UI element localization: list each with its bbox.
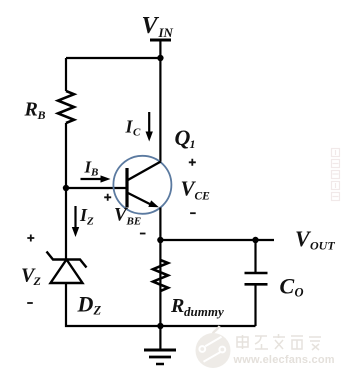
arrow IZ downward	[72, 206, 79, 237]
watermark chinese text	[237, 334, 321, 350]
svg-text:C: C	[280, 274, 295, 299]
svg-text:C: C	[133, 127, 141, 139]
node base junction dot	[63, 185, 69, 191]
label RB	[24, 99, 46, 123]
wire VIN stub down to junction	[159, 40, 161, 58]
label IB	[84, 158, 99, 179]
transistor Q1 emitter diagonal with arrow	[127, 193, 159, 208]
label DZ	[77, 292, 102, 318]
wire emitter vertical	[159, 208, 161, 327]
svg-text:O: O	[295, 286, 304, 300]
watermark logo circle	[196, 326, 231, 368]
capacitor CO top lead	[254, 240, 256, 273]
label minus VCE	[190, 212, 196, 214]
svg-text:Q: Q	[175, 125, 191, 150]
svg-text:BE: BE	[126, 216, 142, 228]
label plus VZ	[27, 235, 34, 242]
label minus VBE	[140, 233, 146, 235]
svg-text:Z: Z	[93, 304, 102, 318]
svg-text:IN: IN	[158, 25, 174, 40]
label CO	[280, 274, 304, 300]
arrow IC downward	[146, 112, 153, 142]
svg-text:V: V	[142, 13, 160, 39]
arrow IB rightward	[81, 175, 111, 182]
svg-text:B: B	[37, 108, 46, 122]
svg-text:CE: CE	[195, 191, 211, 203]
label Rdummy	[170, 295, 224, 319]
label IC	[125, 117, 142, 139]
transistor Q1 collector diagonal	[127, 162, 161, 181]
ground	[144, 326, 176, 364]
wire top horizontal	[66, 57, 160, 59]
transistor Q1 circle	[113, 156, 171, 214]
svg-text:R: R	[24, 99, 38, 121]
node VIN terminal bar	[150, 39, 171, 42]
svg-text:Z: Z	[86, 216, 94, 228]
transistor Q1 base bar	[125, 168, 128, 208]
capacitor CO plates	[245, 273, 268, 284]
label IZ	[79, 205, 94, 228]
label VZ	[21, 265, 42, 289]
wire left top segment	[65, 58, 67, 91]
label VOUT	[295, 226, 335, 253]
wire left middle segment	[65, 123, 67, 260]
svg-text:Z: Z	[33, 274, 42, 288]
label Q1	[175, 125, 196, 151]
node bottom junction dot	[157, 323, 163, 329]
label minus VZ	[27, 302, 33, 304]
label VBE	[114, 205, 141, 228]
svg-text:dummy: dummy	[184, 304, 224, 319]
label plus VBE	[104, 194, 111, 201]
svg-text:B: B	[90, 167, 98, 179]
label VCE	[181, 177, 211, 203]
label plus VCE	[189, 159, 196, 166]
wire base horizontal	[66, 187, 127, 189]
svg-text:1: 1	[190, 137, 196, 151]
svg-text:OUT: OUT	[310, 239, 335, 253]
diode DZ zener bar	[47, 252, 87, 268]
wire output horizontal	[160, 239, 274, 241]
resistor RB	[58, 91, 74, 123]
svg-text:www.elecfans.com: www.elecfans.com	[233, 354, 335, 366]
resistor Rdummy	[153, 260, 168, 291]
svg-text:D: D	[77, 292, 94, 317]
label VIN	[142, 13, 174, 40]
node output junction dot right	[252, 237, 258, 243]
wire left bottom segment	[66, 283, 256, 327]
node output junction dot left	[157, 237, 163, 243]
node junction dot at VIN	[157, 55, 163, 61]
wire collector vertical	[159, 58, 161, 162]
diode DZ triangle	[51, 260, 83, 284]
capacitor CO bottom lead	[254, 284, 256, 326]
watermark faint vertical right	[332, 149, 340, 201]
svg-text:R: R	[170, 295, 184, 317]
